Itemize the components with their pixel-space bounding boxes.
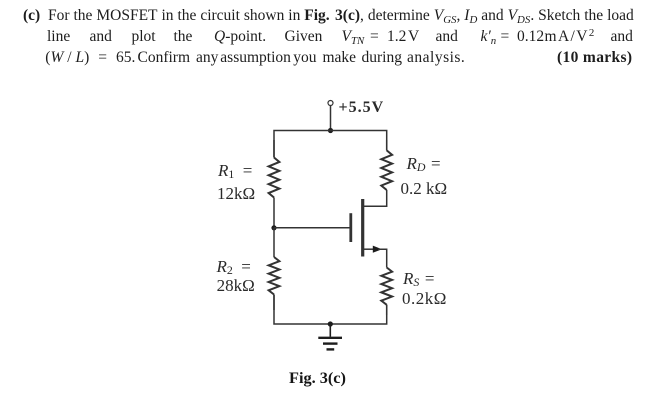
label R2 designator: [217, 258, 251, 275]
label R2 value: [217, 277, 255, 294]
question text line 3: [0, 50, 667, 68]
wire R2 bottom to bottom rail: [273, 295, 275, 311]
wire gate node to R2: [273, 228, 275, 257]
node junction dot at top rail: [328, 128, 333, 133]
label +5.5V supply: [339, 100, 385, 116]
resistor RS: [381, 268, 392, 305]
supply terminal circle: [328, 101, 333, 106]
wire supply stub: [330, 106, 332, 131]
label RD value: [401, 180, 448, 197]
resistor R1: [269, 158, 280, 198]
node ground junction dot: [328, 321, 333, 326]
ground: [318, 324, 342, 349]
label RS designator: [403, 270, 434, 287]
transistor Q1 source lead with arrow: [364, 248, 374, 250]
wire RD top lead: [386, 140, 388, 150]
node gate junction dot: [271, 225, 276, 230]
caption Fig. 3(c): [289, 370, 346, 386]
wire gate: [274, 227, 350, 229]
label R1 designator: [218, 162, 252, 179]
label RD designator: [407, 155, 441, 172]
transistor Q1 gate bar: [349, 213, 352, 242]
wire top rail: [274, 131, 387, 158]
transistor Q1 channel bar: [361, 199, 364, 257]
wire RS bottom to bottom rail: [386, 305, 388, 315]
question text line 1: [23, 8, 40, 24]
wire R1 bottom to gate node: [273, 198, 275, 228]
resistor R2: [269, 257, 280, 295]
wire left branch upper lead: [273, 140, 275, 158]
question text line 2: [0, 29, 667, 47]
label R1 value: [217, 185, 255, 202]
label RS value: [402, 290, 447, 307]
resistor RD: [381, 150, 392, 190]
wire RD bottom to drain: [363, 190, 387, 206]
wire bottom rail: [274, 295, 387, 325]
